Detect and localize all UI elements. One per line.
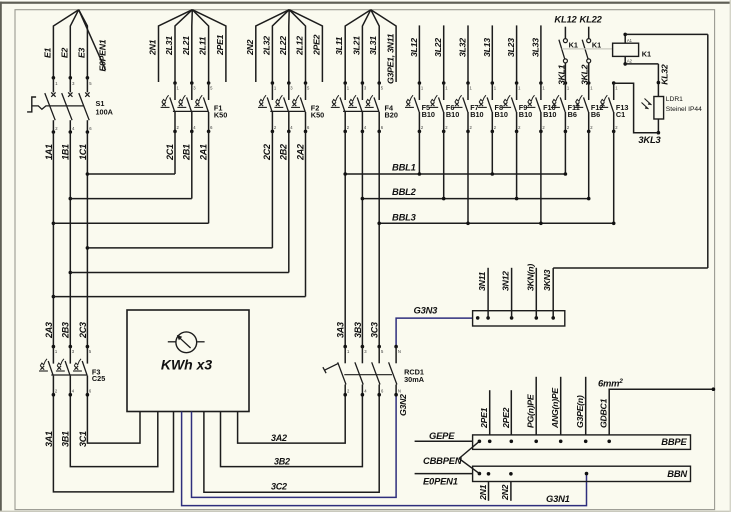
svg-text:2B3: 2B3: [61, 322, 71, 339]
wire 2PE2 stub: [510, 390, 512, 435]
wire 1C1 to 2C2: [87, 247, 272, 249]
svg-text:A2: A2: [627, 58, 633, 63]
label F2: [311, 103, 320, 112]
svg-text:2B2: 2B2: [279, 144, 289, 161]
svg-text:KL32: KL32: [660, 64, 670, 85]
label F11: [568, 103, 580, 112]
svg-text:E3: E3: [76, 47, 86, 58]
label 2PE2: [311, 34, 321, 56]
label 1A1: [44, 144, 54, 160]
svg-text:2L31: 2L31: [164, 36, 174, 56]
bus BBL3: [379, 222, 614, 224]
node A1 corner: [623, 33, 627, 37]
wire 2N1 stub: [488, 482, 490, 501]
label KL32: [660, 64, 670, 85]
node BBL1-F8: [491, 172, 495, 176]
label E2: [59, 47, 69, 58]
label 2B3: [61, 322, 71, 339]
node ANG(n)PE: [559, 440, 563, 444]
bus bar BBN: [473, 466, 691, 481]
wire F7 drop: [467, 131, 469, 223]
svg-text:E1: E1: [42, 47, 52, 58]
label F5 rating B10: [422, 110, 435, 119]
svg-text:3N11: 3N11: [477, 271, 487, 291]
svg-text:GDBC1: GDBC1: [599, 398, 609, 428]
label 3L33: [530, 38, 540, 57]
label F4: [385, 103, 394, 112]
svg-text:C25: C25: [92, 374, 105, 383]
svg-text:2N2: 2N2: [245, 39, 255, 56]
svg-text:2N2: 2N2: [500, 484, 510, 501]
svg-text:2L21: 2L21: [181, 36, 191, 56]
svg-text:K1: K1: [592, 41, 601, 50]
wire GEPE: [415, 440, 473, 442]
label BBPE: [661, 436, 687, 447]
label F4 rating B20: [385, 110, 398, 119]
node BBL1-3A3: [343, 172, 347, 176]
svg-text:3A3: 3A3: [336, 322, 346, 338]
wire 1B1/2B3 column: [69, 132, 71, 347]
wire 2N2 stub: [510, 482, 512, 501]
label F8 rating B10: [495, 110, 508, 119]
node 3KL3 corner: [657, 131, 661, 135]
wire 2B1 drop: [191, 131, 193, 198]
wire 3KN(n) stub: [535, 268, 537, 318]
wire 3C1 to meter: [87, 395, 140, 443]
svg-text:3C1: 3C1: [78, 431, 88, 447]
label S1: [96, 99, 105, 108]
wire F8 drop: [491, 131, 493, 174]
svg-text:3L32: 3L32: [458, 38, 468, 57]
wire 1C1/2C3 column: [86, 132, 88, 347]
label BBL1: [392, 162, 416, 173]
svg-text:3B1: 3B1: [61, 431, 71, 447]
label 3A2: [271, 433, 287, 443]
wire 3KN3 to bus: [552, 268, 554, 318]
wire E0PEN1 feed: [415, 473, 473, 475]
label KL12: [554, 14, 577, 25]
svg-text:2PE2: 2PE2: [501, 407, 511, 429]
svg-text:2A1: 2A1: [198, 144, 208, 161]
svg-text:3L31: 3L31: [368, 36, 378, 55]
switch S1 3-pole main switch: [27, 76, 92, 134]
svg-text:2L12: 2L12: [295, 36, 305, 56]
label 3A3: [336, 322, 346, 338]
label E3: [76, 47, 86, 58]
node 2N1: [487, 472, 491, 476]
svg-text:3C3: 3C3: [370, 322, 380, 338]
wire 1B1 to 2B1: [70, 198, 192, 200]
svg-text:1C1: 1C1: [78, 144, 88, 160]
svg-text:Steinel IP44: Steinel IP44: [666, 106, 702, 113]
node A2 corner: [623, 62, 627, 66]
wire 2C1 drop: [174, 131, 176, 174]
label ANG(n)PE: [550, 387, 560, 429]
svg-text:3KL2: 3KL2: [580, 64, 590, 85]
svg-text:BBN: BBN: [667, 468, 687, 479]
svg-text:K1: K1: [642, 49, 651, 58]
node BBL2-F12: [587, 197, 591, 201]
label F6: [446, 103, 455, 112]
svg-text:3C2: 3C2: [271, 482, 287, 492]
label CBBPEN: [423, 455, 462, 466]
pin A1: [627, 38, 633, 43]
wire 3C3 column: [378, 131, 380, 346]
label 2L22: [278, 36, 288, 56]
label BBN: [667, 468, 687, 479]
svg-text:2A2: 2A2: [295, 144, 305, 161]
wire 2PE2 stub: [289, 10, 322, 82]
label 1B1: [61, 144, 71, 160]
wire 1B1 to 2B2: [70, 272, 288, 274]
svg-text:E2: E2: [59, 47, 69, 58]
label 2N1: [148, 39, 158, 56]
svg-text:30mA: 30mA: [404, 375, 425, 384]
breaker F6 single-pole: [429, 81, 448, 133]
label RCD1: [404, 367, 424, 376]
wire 2A2 drop: [305, 131, 307, 296]
wire G3N3: [396, 318, 473, 347]
svg-text:2N1: 2N1: [478, 484, 488, 501]
label F1 rating K50: [214, 110, 227, 119]
breaker F7 single-pole: [454, 81, 473, 133]
svg-text:N: N: [398, 388, 401, 393]
label 3C3: [370, 322, 380, 338]
wire 2A1 drop: [208, 131, 210, 223]
label F6 rating B10: [446, 110, 459, 119]
breaker F8 single-pole: [478, 81, 497, 133]
label 3KL3: [638, 134, 661, 145]
wire E1/E2/E3 incoming fan: [53, 10, 87, 78]
label 2L12: [295, 36, 305, 56]
svg-text:2C2: 2C2: [262, 144, 272, 161]
label F3 rating C25: [92, 374, 105, 383]
label 2C3: [78, 322, 88, 339]
label 3L32: [458, 38, 468, 57]
wire 3L11/3L21/3L31 incoming fan: [345, 10, 379, 83]
label K1 contact1: [569, 41, 578, 50]
node G3N1-BBN: [585, 472, 589, 476]
breaker F3 3-pole: [39, 345, 92, 397]
label 2L32: [261, 36, 271, 56]
node 6mm2 terminal: [712, 387, 716, 391]
svg-text:2A3: 2A3: [44, 322, 54, 339]
label 2A2: [295, 144, 305, 161]
node 1B1-2B2 junction: [69, 271, 73, 275]
wire F12 drop: [588, 131, 590, 198]
label 2A3: [44, 322, 54, 339]
svg-text:B20: B20: [385, 110, 398, 119]
svg-text:K1: K1: [569, 41, 578, 50]
wire 1A1 to 2A2: [53, 296, 305, 298]
svg-text:2L22: 2L22: [278, 36, 288, 56]
wire F9 drop: [516, 131, 518, 198]
wire G3PE1,3N11 stub: [371, 10, 396, 82]
svg-text:3L22: 3L22: [433, 38, 443, 57]
node 3N11: [486, 316, 490, 320]
wire 3B2: [221, 395, 363, 467]
svg-text:3N12: 3N12: [501, 271, 511, 291]
wire 3N12 stub: [511, 268, 513, 318]
node GEPE entry: [478, 440, 482, 444]
svg-text:GEPE: GEPE: [429, 430, 455, 441]
breaker F9 single-pole: [502, 81, 521, 133]
svg-text:3L12: 3L12: [409, 38, 419, 57]
node 1C1-2C1 junction: [86, 172, 90, 176]
wire 2L31/2L21/2L11 incoming fan: [175, 10, 209, 83]
label 3L11: [334, 36, 344, 55]
label K1 coil: [642, 49, 651, 58]
svg-text:BBL3: BBL3: [392, 212, 417, 223]
label E1: [42, 47, 52, 58]
label 2L31: [164, 36, 174, 56]
breaker F5 single-pole: [405, 81, 424, 133]
svg-text:G3N3: G3N3: [414, 305, 439, 316]
svg-text:G3PE(n): G3PE(n): [575, 395, 585, 428]
node BBL2-F9: [515, 197, 519, 201]
svg-text:KWh x3: KWh x3: [161, 357, 213, 373]
label 3L22: [433, 38, 443, 57]
svg-text:KL12: KL12: [554, 14, 577, 25]
node BBL1-F5: [418, 172, 422, 176]
label E0PEN1 feed: [423, 476, 458, 487]
relay coil K1: [613, 43, 639, 56]
breaker F2 3-pole: [258, 81, 310, 133]
bus BBL2: [362, 198, 588, 200]
label 3L13: [482, 38, 492, 57]
label F7 rating B10: [470, 110, 483, 119]
label F12 rating B6: [591, 110, 600, 119]
wire 2N1 stub: [159, 10, 193, 82]
wire 3B3 column: [361, 131, 363, 346]
svg-text:2PE1: 2PE1: [215, 34, 225, 56]
node 2PE2: [510, 440, 514, 444]
wire 2PE1 stub: [192, 10, 226, 82]
label 3B1: [61, 431, 71, 447]
breaker F11 single-pole: [551, 81, 570, 133]
wire F6 drop: [443, 131, 445, 198]
wire 3B1 to meter: [70, 395, 158, 467]
svg-text:B10: B10: [495, 110, 508, 119]
svg-text:2B1: 2B1: [182, 144, 192, 161]
node KL32 joint: [657, 81, 661, 85]
node 3KN3: [551, 316, 555, 320]
label 2PE1: [215, 34, 225, 56]
label F12: [591, 103, 604, 112]
wire E0PEN1 stub: [79, 10, 106, 70]
svg-text:3L23: 3L23: [506, 38, 516, 57]
wire 3N11 stub: [487, 268, 489, 318]
label 2C2: [262, 144, 272, 161]
label 3L31: [368, 36, 378, 55]
node E0PEN1 entry: [478, 472, 482, 476]
label 2PE2: [501, 407, 511, 429]
label F2 rating K50: [311, 110, 324, 119]
wire G3N2 neutral: [192, 395, 397, 498]
wire F13 drop: [613, 131, 615, 223]
label 2C1: [165, 144, 175, 161]
wire F5 drop: [418, 131, 420, 174]
label F10: [543, 103, 556, 112]
wire F11 drop: [564, 131, 566, 174]
label 2B1: [182, 144, 192, 161]
svg-text:3A1: 3A1: [44, 431, 54, 447]
svg-text:2C1: 2C1: [165, 144, 175, 161]
label G3PE1,3N11: [386, 33, 396, 84]
svg-text:PG(n)PE: PG(n)PE: [526, 393, 536, 428]
neutral bus bar 3N: [473, 311, 565, 326]
breaker F4 3-pole: [331, 81, 384, 133]
label F13 rating C1: [616, 110, 625, 119]
label F5: [422, 103, 431, 112]
label 2L11: [198, 36, 208, 56]
svg-text:3KL1: 3KL1: [556, 64, 566, 85]
label 3N11: [477, 271, 487, 291]
node 3KN(n): [535, 316, 539, 320]
node BBL3-F13: [612, 222, 616, 226]
breaker F10 single-pole: [527, 81, 546, 133]
svg-text:BBL2: BBL2: [392, 186, 417, 197]
label 2N2: [245, 39, 255, 56]
svg-text:3A2: 3A2: [271, 433, 287, 443]
wire A2 down: [624, 56, 626, 64]
svg-text:2PE2: 2PE2: [311, 34, 321, 56]
bus bar BBPE: [473, 435, 691, 450]
svg-text:3B2: 3B2: [274, 457, 290, 467]
label 3N12: [501, 271, 511, 291]
svg-text:K50: K50: [214, 110, 227, 119]
mechanical link: [562, 48, 613, 50]
wire CBBPEN fork lower: [459, 459, 479, 474]
svg-text:K50: K50: [311, 110, 324, 119]
node 1A1-2A2 junction: [52, 295, 56, 299]
label G3N3: [414, 305, 439, 316]
label G3N2: [398, 394, 408, 416]
svg-text:3L33: 3L33: [530, 38, 540, 57]
light sensor LDR1: [654, 97, 664, 120]
label Steinel IP44: [666, 106, 702, 113]
wire G3N1 neutral: [182, 412, 587, 506]
label G3PE(n): [575, 395, 585, 428]
node 2N2: [509, 472, 513, 476]
label 3L23: [506, 38, 516, 57]
label 3B2: [274, 457, 290, 467]
breaker F1 3-pole: [161, 81, 214, 133]
node BBL1-F11: [564, 172, 568, 176]
label F8: [495, 103, 504, 112]
label BBL3: [392, 212, 417, 223]
wire 3L12: [418, 25, 420, 83]
node 3N12: [510, 316, 514, 320]
label F7: [470, 103, 479, 112]
node 2PE1: [488, 440, 492, 444]
wire 2B2 drop: [288, 131, 290, 272]
svg-text:3KN(n): 3KN(n): [525, 264, 535, 291]
label KL22: [580, 14, 603, 25]
svg-text:C1: C1: [616, 110, 625, 119]
wire 2C2 drop: [271, 131, 273, 248]
node BBL3-F10: [539, 222, 543, 226]
svg-text:G3N1: G3N1: [546, 493, 570, 504]
wire 3L22: [443, 25, 445, 83]
svg-text:G3N2: G3N2: [398, 394, 408, 416]
svg-text:E0PEN1: E0PEN1: [97, 39, 107, 71]
wire F10 drop: [540, 131, 542, 223]
label F3: [92, 368, 101, 377]
node G3PE(n): [584, 440, 588, 444]
label KWh x3: [161, 357, 213, 373]
node 1C1-2C2 junction: [86, 246, 90, 250]
light arrows: [642, 99, 652, 110]
meter box KWh: [127, 310, 249, 412]
label BBL2: [392, 186, 417, 197]
label E0PEN1: [97, 39, 107, 71]
label PG(n)PE: [526, 393, 536, 428]
label 3KN(n): [525, 264, 535, 291]
svg-text:BBL1: BBL1: [392, 162, 416, 173]
wire G3PE(n) stub: [585, 377, 587, 435]
relay contact K1 (3KL1): [559, 27, 568, 83]
node 1A1-2A1 junction: [52, 222, 56, 226]
wire 3A1 to meter: [53, 395, 173, 492]
wire ANG(n)PE stub: [560, 377, 562, 435]
pin A2: [627, 58, 633, 63]
label 2L21: [181, 36, 191, 56]
wire A1 to right edge: [625, 33, 708, 35]
svg-text:2PE1: 2PE1: [479, 407, 489, 429]
wire A2 to KL32: [625, 63, 658, 65]
svg-text:B10: B10: [470, 110, 483, 119]
label 2A1: [198, 144, 208, 161]
svg-text:3KN3: 3KN3: [542, 269, 552, 291]
svg-text:B6: B6: [568, 110, 577, 119]
svg-text:G3PE1, 3N11: G3PE1, 3N11: [386, 33, 396, 84]
label 2N2: [500, 484, 510, 501]
label F9: [519, 103, 528, 112]
meter dial: [168, 332, 205, 353]
wire 3L33: [540, 25, 542, 83]
wire 3KL3: [614, 83, 659, 133]
label LDR1: [666, 96, 683, 103]
svg-text:B10: B10: [446, 110, 459, 119]
label 1C1: [78, 144, 88, 160]
wire 2N2 stub: [256, 10, 289, 82]
svg-text:KL22: KL22: [580, 14, 603, 25]
node BBL2-F6: [442, 197, 446, 201]
wire right edge down: [707, 34, 709, 268]
label GEPE: [429, 430, 455, 441]
svg-text:B10: B10: [519, 110, 532, 119]
label G3N1: [546, 493, 570, 504]
svg-text:CBBPEN: CBBPEN: [423, 455, 462, 466]
svg-text:S1: S1: [96, 99, 105, 108]
svg-text:2C3: 2C3: [78, 322, 88, 339]
node 3N entry: [476, 316, 480, 320]
label 3KL2: [580, 64, 590, 85]
label GDBC1: [599, 398, 609, 428]
svg-text:2L11: 2L11: [198, 36, 208, 56]
label 3L21: [351, 36, 361, 55]
bus BBL1: [345, 173, 565, 175]
wire 2PE1 stub: [489, 390, 491, 435]
svg-text:N: N: [398, 349, 401, 354]
node 1B1-2B1 junction: [69, 197, 73, 201]
label F10 rating B10: [543, 110, 556, 119]
label 2N1: [478, 484, 488, 501]
svg-text:2N1: 2N1: [148, 39, 158, 56]
node GDBC1: [607, 440, 611, 444]
label 3C1: [78, 431, 88, 447]
